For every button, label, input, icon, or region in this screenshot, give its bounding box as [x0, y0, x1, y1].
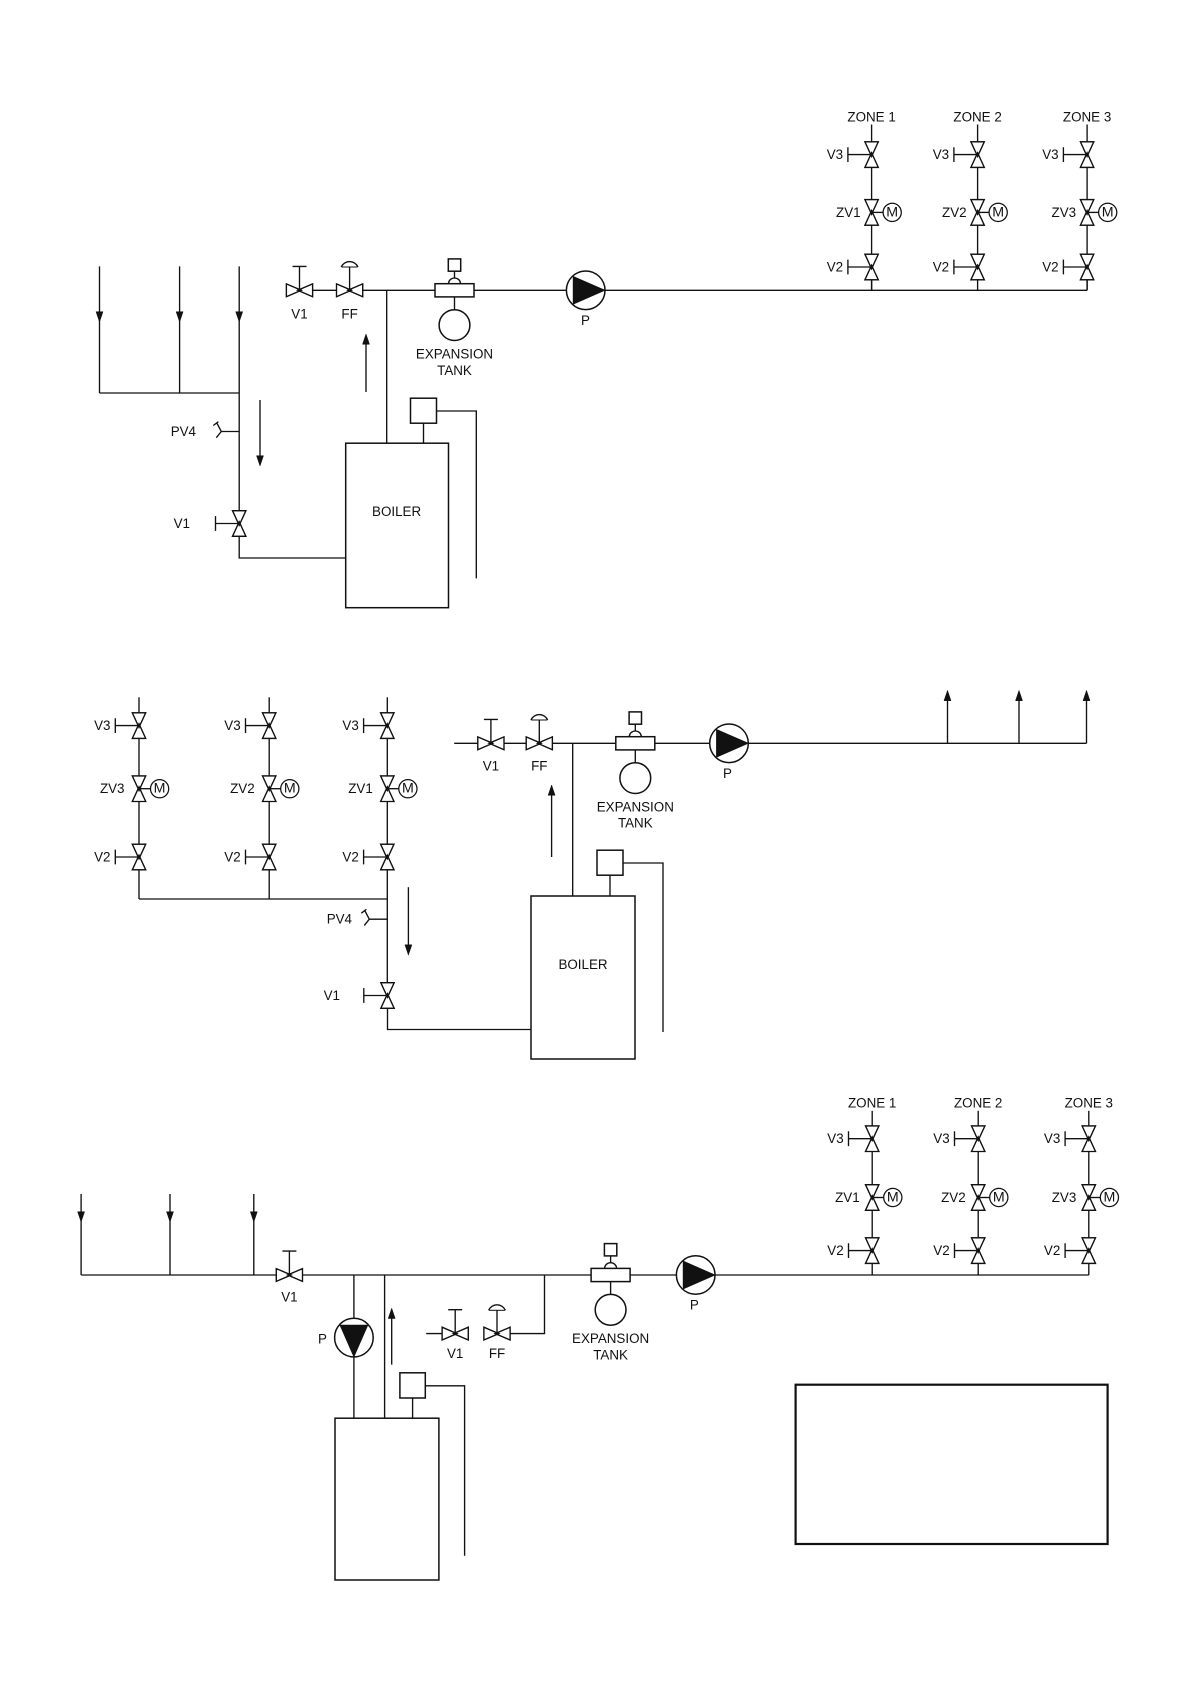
svg-text:ZV2: ZV2 [942, 205, 967, 220]
flow arrow up supply branch 2 s2 [1018, 701, 1020, 743]
wire [977, 167, 979, 199]
svg-text:V2: V2 [933, 1243, 949, 1258]
wire return to boiler s1 [239, 536, 346, 558]
svg-text:V3: V3 [827, 147, 843, 162]
svg-text:V2: V2 [1044, 1243, 1060, 1258]
svg-text:P: P [723, 766, 732, 781]
wire [386, 738, 388, 776]
valve V2 (ZV1 branch) [865, 254, 878, 280]
valve V2 (ZV2 branch) [971, 254, 984, 280]
wire [871, 280, 873, 291]
wire [977, 225, 979, 254]
aquastat control s2 [597, 850, 623, 875]
wire [1086, 167, 1088, 199]
svg-text:TANK: TANK [618, 816, 653, 831]
svg-text:EXPANSION: EXPANSION [572, 1331, 649, 1346]
zone valve ZV2 [971, 200, 984, 226]
valve V3 (ZV3 branch) [1080, 142, 1093, 168]
aquastat control s3 [400, 1373, 425, 1398]
wire return riser s1 [238, 393, 240, 511]
valve V3 (ZV3 branch) [132, 713, 145, 739]
svg-text:P: P [318, 1332, 327, 1347]
svg-text:ZONE 2: ZONE 2 [954, 1096, 1002, 1111]
drain valve PV4 s1 [213, 422, 239, 438]
svg-text:BOILER: BOILER [558, 957, 607, 972]
valve V2 (ZV3 branch) [1082, 1238, 1095, 1264]
wire [871, 225, 873, 254]
valve V2 (ZV2 branch) [263, 844, 276, 870]
wire [977, 1210, 979, 1238]
flow arrow up supply end s2 [1086, 701, 1088, 743]
wire aquastat capillary s1 [437, 411, 477, 578]
wire aquastat stem s2 [609, 875, 611, 896]
motor M of ZV3 [1087, 211, 1099, 213]
wire [977, 1263, 979, 1275]
valve V3 (ZV3 branch) [1082, 1126, 1095, 1152]
wire zone3 corner s1 [1086, 279, 1088, 290]
svg-text:PV4: PV4 [171, 424, 197, 439]
wire [871, 1210, 873, 1238]
flow arrow up beside riser s3 [391, 1319, 393, 1365]
wire [1088, 1210, 1090, 1238]
wire return to boiler s2 [388, 1008, 532, 1029]
svg-text:M: M [992, 204, 1004, 220]
valve V2 (ZV1 branch) [866, 1238, 879, 1264]
wire zone stub ZV3 [1088, 1111, 1090, 1126]
wire [268, 870, 270, 899]
svg-text:V3: V3 [827, 1131, 843, 1146]
wire [977, 1152, 979, 1185]
svg-text:ZV3: ZV3 [1052, 205, 1077, 220]
boiler s1 [346, 443, 449, 608]
flow arrow up supply branch 1 s2 [947, 701, 949, 743]
valve V1 return s2 [381, 983, 394, 1009]
svg-text:PV4: PV4 [327, 912, 353, 927]
wire [1088, 1263, 1090, 1275]
motor M of ZV3 [1089, 1197, 1101, 1199]
svg-text:EXPANSION: EXPANSION [597, 799, 674, 814]
svg-text:TANK: TANK [593, 1347, 628, 1362]
wire [871, 1263, 873, 1275]
wire [138, 802, 140, 845]
svg-text:ZV1: ZV1 [835, 1190, 860, 1205]
svg-text:M: M [1103, 1190, 1115, 1206]
wire return drop 1 s3 [80, 1194, 82, 1275]
zone valve ZV2 [972, 1185, 985, 1211]
svg-text:V2: V2 [827, 260, 843, 275]
svg-text:ZV2: ZV2 [941, 1190, 966, 1205]
svg-text:V1: V1 [281, 1290, 297, 1305]
flow arrow down beside riser s2 [407, 887, 409, 945]
zone valve ZV3 [132, 776, 145, 802]
valve V3 (ZV1 branch) [865, 142, 878, 168]
pump P s3 (down) [335, 1318, 374, 1357]
wire fill line to main s3 [510, 1275, 544, 1334]
svg-text:V2: V2 [827, 1243, 843, 1258]
pump P s1 [566, 271, 605, 310]
wire main supply line section 1 [286, 289, 1087, 291]
valve FF fast fill s1 [337, 284, 363, 297]
wire zone stub ZV1 [871, 125, 873, 142]
wire aquastat stem s1 [423, 423, 425, 443]
wire [386, 870, 388, 899]
svg-text:V2: V2 [224, 850, 240, 865]
air separator with auto vent s3 [604, 1244, 616, 1256]
wire return drop 3 s3 [253, 1194, 255, 1275]
svg-text:V2: V2 [933, 260, 949, 275]
svg-text:M: M [284, 781, 296, 797]
zone valve ZV1 [865, 200, 878, 226]
flow arrow down on return drop 1 s3 [78, 1212, 85, 1222]
motor M of ZV3 [139, 788, 151, 790]
valve V1 fill s1 [286, 284, 312, 297]
zone valve ZV3 [1080, 200, 1093, 226]
valve V3 (ZV1 branch) [381, 713, 394, 739]
wire [268, 802, 270, 845]
pump P s2 [710, 724, 749, 763]
wire return riser s2 [386, 899, 388, 983]
valve V1 return s1 [233, 511, 246, 537]
svg-text:V3: V3 [933, 147, 949, 162]
svg-text:V1: V1 [291, 307, 307, 322]
wire boiler supply riser s1 [386, 290, 388, 443]
svg-text:V3: V3 [1044, 1131, 1060, 1146]
valve V2 (ZV3 branch) [132, 844, 145, 870]
zone valve ZV1 [381, 776, 394, 802]
flow arrow down on return drop 1 s1 [96, 312, 103, 322]
zone valve ZV1 [866, 1185, 879, 1211]
wire [138, 738, 140, 776]
wire zone1 drop s1 [871, 279, 873, 290]
motor M of ZV1 [872, 1197, 884, 1199]
motor M of ZV1 [387, 788, 399, 790]
pump P s3 (right) [676, 1256, 715, 1295]
wire [268, 738, 270, 776]
zone valve ZV2 [263, 776, 276, 802]
flow arrow down on return drop 2 s3 [167, 1212, 174, 1222]
svg-text:ZONE 3: ZONE 3 [1063, 109, 1111, 124]
svg-text:M: M [886, 204, 898, 220]
flow arrow down on return drop 3 s1 [236, 312, 243, 322]
wire [138, 870, 140, 899]
flow arrow down beside return riser s1 [259, 400, 261, 456]
svg-text:V3: V3 [94, 718, 110, 733]
wire boiler supply riser s2 [572, 743, 574, 896]
valve V1 fill s3 [442, 1327, 468, 1340]
svg-text:ZV2: ZV2 [230, 781, 255, 796]
wire aquastat capillary s3 [425, 1386, 464, 1556]
valve V3 (ZV2 branch) [971, 142, 984, 168]
wire return drop 2 s3 [169, 1194, 171, 1275]
wire [871, 167, 873, 199]
svg-text:ZV1: ZV1 [348, 781, 373, 796]
svg-text:V3: V3 [342, 718, 358, 733]
svg-text:ZV3: ZV3 [1052, 1190, 1077, 1205]
svg-text:ZONE 1: ZONE 1 [848, 1096, 896, 1111]
motor M of ZV2 [978, 1197, 990, 1199]
wire [977, 280, 979, 291]
svg-text:V1: V1 [483, 759, 499, 774]
svg-text:ZV3: ZV3 [100, 781, 125, 796]
wire [386, 802, 388, 845]
motor M of ZV2 [269, 788, 281, 790]
valve V2 (ZV1 branch) [381, 844, 394, 870]
valve V3 (ZV2 branch) [972, 1126, 985, 1152]
svg-text:V3: V3 [933, 1131, 949, 1146]
valve V1 fill s2 [478, 737, 504, 750]
svg-text:P: P [581, 313, 590, 328]
svg-text:M: M [887, 1190, 899, 1206]
wire zone stub ZV1 [386, 697, 388, 713]
wire aquastat stem s3 [412, 1398, 414, 1418]
boiler s3 [335, 1418, 439, 1580]
wire pump drop s3 [353, 1275, 355, 1418]
wire return collector s1 [100, 392, 240, 394]
boiler s2 [531, 896, 635, 1059]
svg-text:V1: V1 [174, 516, 190, 531]
flow arrow up beside riser s1 [365, 344, 367, 392]
valve V3 (ZV1 branch) [866, 1126, 879, 1152]
svg-text:EXPANSION: EXPANSION [416, 347, 493, 362]
svg-text:TANK: TANK [437, 363, 472, 378]
svg-text:V2: V2 [94, 850, 110, 865]
svg-text:V3: V3 [1042, 147, 1058, 162]
wire [871, 1152, 873, 1185]
svg-text:ZONE 2: ZONE 2 [953, 109, 1001, 124]
valve FF fast fill s2 [526, 737, 552, 750]
svg-text:V1: V1 [447, 1346, 463, 1361]
wire zone stub ZV3 [138, 697, 140, 713]
wire main supply line section 2 [454, 742, 1086, 744]
svg-text:ZV1: ZV1 [836, 205, 861, 220]
wire [1086, 280, 1088, 291]
wire zone stub ZV2 [977, 125, 979, 142]
svg-text:ZONE 3: ZONE 3 [1065, 1096, 1113, 1111]
svg-text:V1: V1 [324, 988, 340, 1003]
svg-text:BOILER: BOILER [372, 504, 421, 519]
wire fill stub s3 [426, 1333, 442, 1335]
svg-text:V2: V2 [1042, 260, 1058, 275]
svg-text:FF: FF [531, 759, 547, 774]
svg-text:V3: V3 [224, 718, 240, 733]
zone valve ZV3 [1082, 1185, 1095, 1211]
flow arrow up beside riser s2 [551, 795, 553, 857]
wire [1088, 1152, 1090, 1185]
wire main line section 3 [81, 1274, 1089, 1276]
valve V3 (ZV2 branch) [263, 713, 276, 739]
svg-text:FF: FF [341, 307, 357, 322]
drain valve PV4 s2 [361, 909, 387, 925]
air separator with auto vent s2 [629, 712, 641, 724]
wire return drop 1 s1 [99, 266, 101, 393]
valve FF fast fill s3 [484, 1327, 510, 1340]
flow arrow down on return drop 3 s3 [250, 1212, 257, 1222]
svg-text:FF: FF [489, 1346, 505, 1361]
wire zone stub ZV2 [268, 697, 270, 713]
flow arrow down on return drop 2 s1 [176, 312, 183, 322]
aquastat control s1 [411, 398, 437, 423]
wire boiler supply riser s3 [384, 1275, 386, 1418]
wire return drop 3 s1 [238, 266, 240, 393]
wire return drop 2 s1 [179, 266, 181, 393]
wire zone stub ZV1 [871, 1111, 873, 1126]
svg-text:M: M [154, 781, 166, 797]
valve V2 (ZV3 branch) [1080, 254, 1093, 280]
valve V1 main s3 [276, 1269, 302, 1282]
wire zone stub ZV2 [977, 1111, 979, 1126]
svg-text:ZONE 1: ZONE 1 [847, 109, 895, 124]
wire [1086, 225, 1088, 254]
wire aquastat capillary s2 [623, 863, 663, 1032]
svg-text:V2: V2 [342, 850, 358, 865]
legend box [796, 1385, 1108, 1544]
svg-text:M: M [993, 1190, 1005, 1206]
svg-text:P: P [690, 1298, 699, 1313]
wire return collector s2 [139, 898, 387, 900]
svg-text:M: M [1102, 204, 1114, 220]
svg-text:M: M [402, 781, 414, 797]
air separator with auto vent s1 [448, 259, 460, 271]
valve V2 (ZV2 branch) [972, 1238, 985, 1264]
motor M of ZV2 [978, 211, 990, 213]
wire zone stub ZV3 [1086, 125, 1088, 142]
motor M of ZV1 [872, 211, 884, 213]
